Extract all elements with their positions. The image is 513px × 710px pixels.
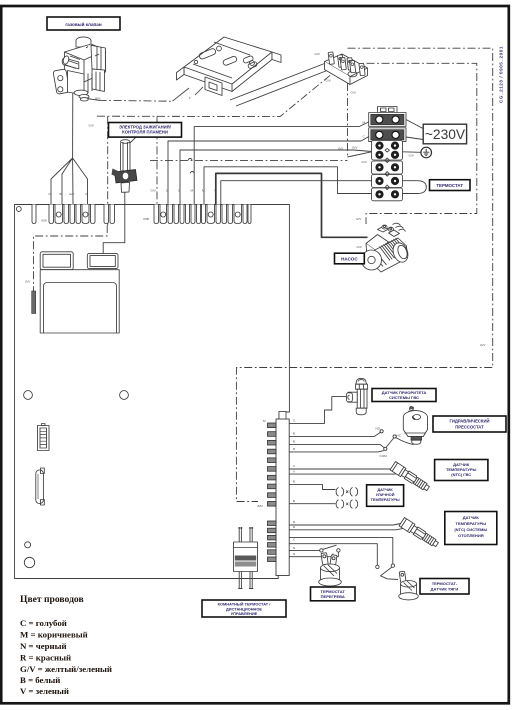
svg-text:N = черный: N = черный (20, 641, 67, 651)
svg-text:ПРЕССОСТАТ: ПРЕССОСТАТ (455, 425, 484, 430)
svg-text:M: M (363, 121, 366, 125)
svg-text:G/V: G/V (362, 160, 368, 164)
svg-text:G/V: G/V (352, 146, 358, 150)
label NTC DHW sensor (435, 460, 488, 481)
svg-text:УЛИЧНОЙ: УЛИЧНОЙ (376, 493, 395, 497)
crossover hops (188, 158, 192, 160)
svg-text:R = красный: R = красный (20, 653, 71, 663)
label thermostat (430, 180, 471, 191)
svg-text:КОНТРОЛЯ ПЛАМЕНИ: КОНТРОЛЯ ПЛАМЕНИ (122, 130, 168, 135)
wire G/V drop to PCB earth (107, 116, 109, 225)
dash-dot outer boundary (236, 48, 492, 501)
outdoor temp connectors (336, 488, 358, 509)
svg-text:G/V: G/V (338, 147, 344, 151)
hydraulic pressure switch (403, 406, 427, 444)
svg-text:газовый клапан: газовый клапан (65, 21, 102, 27)
bracket plate (177, 37, 282, 100)
PCB capacitor (36, 468, 45, 505)
svg-text:B: B (293, 499, 295, 503)
svg-text:C: C (363, 135, 366, 139)
PCB pin header (38, 424, 50, 451)
svg-text:COM: COM (380, 454, 388, 458)
svg-text:NO: NO (376, 427, 381, 431)
svg-text:V: V (293, 464, 296, 468)
ground bar on PCB (32, 291, 36, 314)
label pump (335, 253, 365, 264)
strip wire room thermostat contact (289, 549, 319, 551)
label ignition electrode (109, 123, 182, 138)
draft contact circles and blade (391, 564, 394, 567)
terminal block plugs (369, 107, 406, 142)
NTC sensor heating (399, 518, 440, 549)
label outdoor temp sensor (367, 485, 404, 507)
svg-text:УПРАВЛЕНИЕ: УПРАВЛЕНИЕ (231, 611, 258, 616)
svg-text:B/N: B/N (258, 504, 263, 508)
svg-text:G/V: G/V (89, 124, 95, 128)
X0B comb teeth (154, 205, 251, 224)
label remote control kit (202, 600, 286, 617)
wire G/V faston drop (347, 83, 349, 157)
X0A comb teeth (32, 205, 115, 224)
svg-text:B/N: B/N (95, 97, 100, 101)
svg-text:NC: NC (397, 434, 402, 438)
wire pump feed thick (216, 173, 368, 237)
svg-text:~230V: ~230V (425, 127, 466, 142)
ground symbol (421, 147, 432, 158)
PCB transformer (40, 270, 119, 333)
wire gas valve main cable (72, 88, 74, 158)
wire riser to terminal row3 (180, 150, 372, 205)
wire fan to X0A (51, 158, 88, 205)
PCB relay 1 (40, 252, 73, 270)
X1 strip spine (276, 419, 289, 576)
svg-text:ТЕРМОСТАТ: ТЕРМОСТАТ (436, 183, 463, 188)
strip wires to NTC heating (289, 523, 403, 525)
svg-text:C: C (293, 538, 296, 542)
wire row3 to ground symbol (403, 151, 421, 154)
svg-text:G/V: G/V (25, 280, 31, 284)
strip wires to draft contacts (289, 537, 392, 563)
svg-text:C = голубой: C = голубой (20, 618, 67, 628)
svg-text:V: V (293, 469, 296, 473)
svg-text:R: R (293, 525, 296, 529)
svg-text:B: B (293, 480, 295, 484)
svg-text:M: M (263, 419, 266, 423)
faston ground strip (325, 48, 368, 84)
svg-text:ДАТЧИК: ДАТЧИК (377, 488, 393, 492)
svg-text:R: R (293, 520, 296, 524)
wire riser to terminal row5 (221, 181, 372, 205)
svg-text:B = белый: B = белый (20, 675, 60, 685)
wire electrode HV cable (103, 192, 125, 257)
NTC sensor DHW (390, 462, 431, 493)
svg-text:ТЕМПЕРАТУРЫ: ТЕМПЕРАТУРЫ (456, 521, 487, 526)
strip wire to outdoor connector row1 (289, 484, 335, 489)
svg-text:ТЕРМОСТАТ-: ТЕРМОСТАТ- (432, 581, 458, 586)
PCB mounting holes (24, 391, 33, 400)
svg-text:G/V: G/V (351, 91, 357, 95)
terminal block screw rows (372, 141, 403, 201)
svg-text:G/V: G/V (356, 217, 362, 221)
svg-text:X0A: X0A (41, 219, 48, 223)
svg-text:ПЕРЕГРЕВА: ПЕРЕГРЕВА (321, 594, 345, 599)
svg-text:G/V: G/V (315, 52, 321, 56)
tiny wire labels (25, 52, 486, 556)
svg-text:(NTC) ГВС: (NTC) ГВС (451, 472, 471, 477)
svg-text:ДАТЧИК: ДАТЧИК (463, 515, 480, 520)
svg-text:Цвет проводов: Цвет проводов (20, 594, 84, 605)
wire G/V dash-dot horizontal to block (150, 159, 348, 161)
gas valve (53, 37, 105, 101)
svg-text:G/V: G/V (480, 343, 486, 347)
flow priority sensor (346, 378, 367, 414)
wire G/V dash-dot valve to faston (97, 73, 333, 117)
strip wire to overheat stat (289, 556, 338, 558)
label gas valve (47, 17, 120, 30)
PCB relay 2 (87, 253, 118, 268)
strip wire 1 to flow sensor (289, 397, 346, 424)
svg-text:M: M (202, 189, 205, 193)
svg-text:CG_2128 / 0905_2901: CG_2128 / 0905_2901 (499, 46, 504, 103)
svg-text:ДАТЧИК ТЯГИ: ДАТЧИК ТЯГИ (431, 587, 459, 592)
svg-text:R: R (293, 447, 296, 451)
svg-text:G/V: G/V (326, 79, 332, 83)
label hydraulic pressure switch (433, 416, 506, 432)
svg-text:ГИДРАВЛИЧЕСКИЙ: ГИДРАВЛИЧЕСКИЙ (449, 419, 489, 424)
wire thermostat jumper loop (403, 181, 427, 194)
svg-text:G/V: G/V (69, 192, 75, 196)
X1 strip teeth lower (268, 521, 277, 562)
svg-text:M: M (86, 192, 89, 196)
svg-text:X0B: X0B (143, 217, 149, 221)
svg-text:G/V: G/V (357, 245, 363, 249)
svg-text:C: C (293, 419, 296, 423)
wire valve B/N to bracket (81, 98, 99, 101)
PCB outline (15, 205, 290, 579)
wire electrode bend (126, 134, 140, 148)
label DHW priority sensor (372, 389, 436, 402)
switch blade and lead to pressure switch (380, 430, 383, 433)
svg-text:ТЕМПЕРАТУРЫ: ТЕМПЕРАТУРЫ (371, 498, 400, 502)
svg-text:НАСОС: НАСОС (341, 257, 358, 262)
svg-text:N: N (293, 552, 295, 556)
svg-text:G/V = желтый/зеленый: G/V = желтый/зеленый (20, 664, 112, 674)
pump (362, 223, 411, 272)
svg-text:N: N (293, 546, 295, 550)
svg-text:V = зеленый: V = зеленый (20, 686, 69, 696)
label NTC heating sensor (445, 512, 497, 545)
strip wire 2 to NO (289, 432, 381, 437)
strip wire to outdoor connector row2 (289, 503, 335, 505)
svg-text:G/V: G/V (151, 189, 157, 193)
svg-text:B: B (293, 440, 295, 444)
wire C riser to plug2 (168, 137, 369, 205)
svg-text:F: F (189, 96, 191, 100)
svg-text:G/V: G/V (409, 154, 415, 158)
svg-text:B: B (60, 192, 62, 196)
label draft thermostat (420, 579, 469, 595)
X1 strip teeth upper (268, 423, 277, 506)
overheat thermostat (319, 553, 342, 586)
label overheat thermostat (311, 587, 356, 601)
draft thermostat (399, 571, 419, 600)
svg-text:M: M (191, 189, 194, 193)
svg-text:B: B (293, 432, 295, 436)
wire plugs to 230V box (406, 120, 423, 140)
ignition electrode (112, 131, 142, 192)
wire bracket to faston pair (230, 61, 336, 106)
wire M riser to plug1 (194, 122, 369, 205)
wire G/V drop to X0B (156, 116, 158, 204)
strip wires to NTC DHW (289, 468, 397, 469)
svg-text:C: C (178, 189, 181, 193)
dash-dot inner boundary (366, 63, 477, 224)
svg-text:ОТОПЛЕНИЯ: ОТОПЛЕНИЯ (458, 533, 484, 538)
svg-text:СИСТЕМЫ ГВС: СИСТЕМЫ ГВС (389, 395, 419, 400)
wire riser to terminal row7 (204, 167, 372, 205)
strip wires to COM (289, 444, 384, 447)
label 230V (423, 124, 466, 144)
svg-text:M = коричневый: M = коричневый (20, 630, 88, 640)
svg-text:(NTC) СИСТЕМЫ: (NTC) СИСТЕМЫ (454, 527, 487, 532)
remote control connector (234, 527, 258, 589)
